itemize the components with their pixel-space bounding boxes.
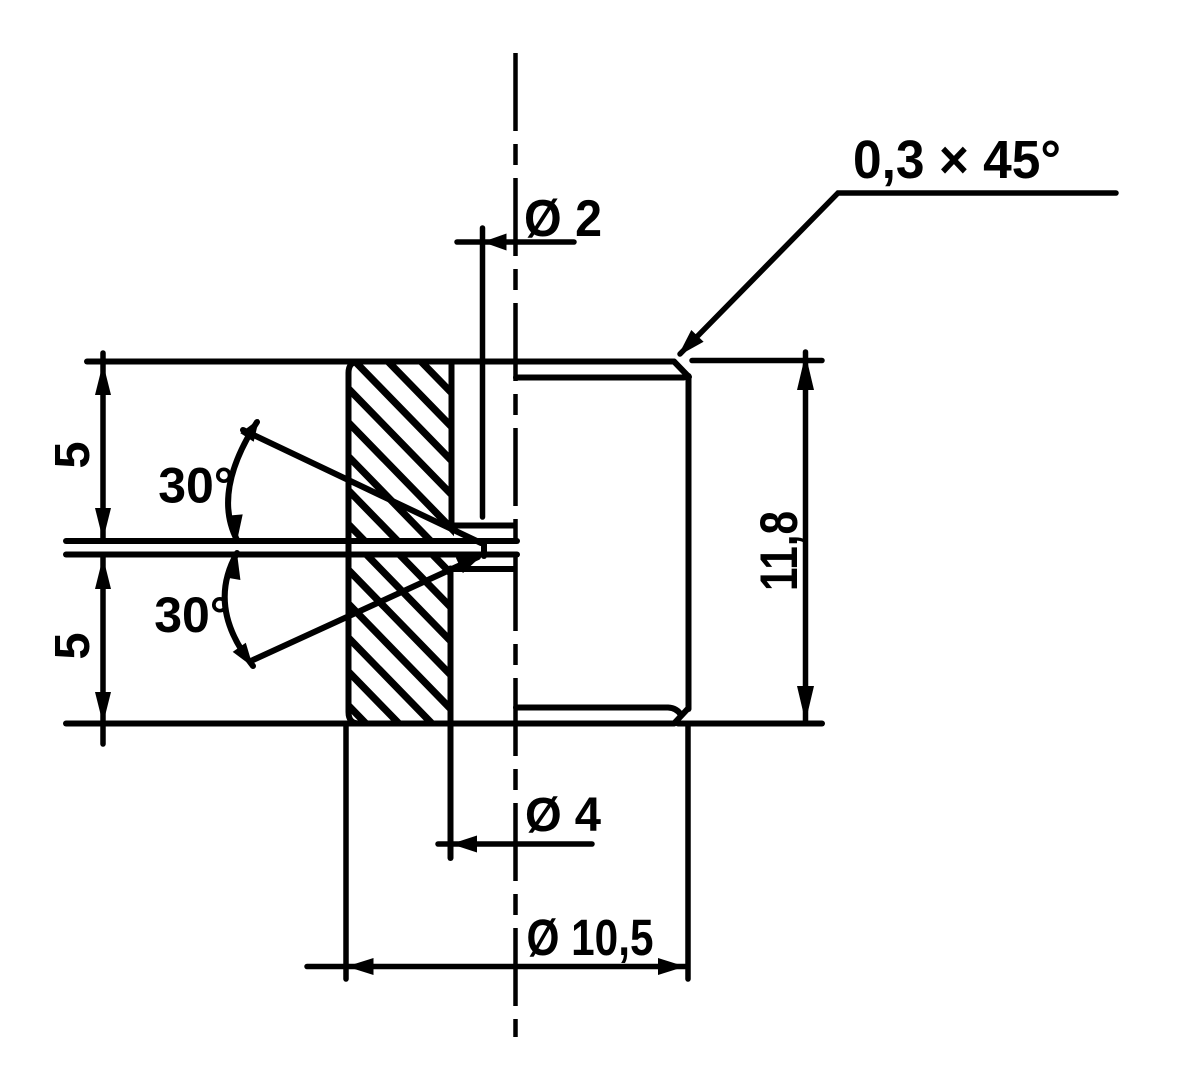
svg-text:30°: 30° [158, 458, 234, 514]
svg-text:0,3 × 45°: 0,3 × 45° [853, 130, 1061, 190]
svg-text:11,8: 11,8 [750, 511, 809, 591]
svg-text:Ø 2: Ø 2 [524, 190, 602, 248]
svg-text:5: 5 [46, 632, 100, 659]
svg-text:Ø 4: Ø 4 [525, 789, 601, 842]
svg-text:Ø 10,5: Ø 10,5 [527, 909, 654, 966]
svg-text:30°: 30° [154, 587, 230, 643]
svg-text:5: 5 [46, 441, 100, 468]
